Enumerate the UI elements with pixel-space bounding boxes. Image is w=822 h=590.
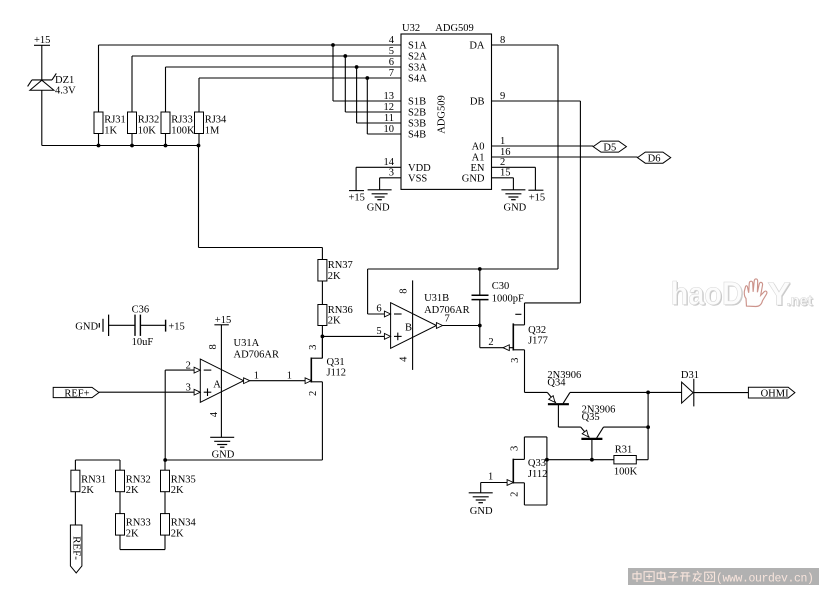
svg-text:10uF: 10uF — [132, 337, 154, 348]
svg-text:2K: 2K — [328, 316, 341, 327]
svg-text:2: 2 — [500, 157, 505, 168]
svg-text:OHMI: OHMI — [761, 388, 790, 399]
svg-text:2K: 2K — [171, 529, 184, 540]
svg-text:7: 7 — [389, 68, 394, 79]
svg-text:DB: DB — [470, 97, 485, 108]
svg-text:3: 3 — [186, 383, 191, 394]
svg-text:GND: GND — [462, 173, 485, 184]
svg-text:1M: 1M — [205, 126, 220, 137]
svg-text:1: 1 — [488, 472, 493, 483]
svg-text:A: A — [213, 380, 221, 391]
svg-text:RN31: RN31 — [81, 474, 106, 485]
svg-text:100K: 100K — [171, 126, 195, 137]
svg-text:Q33: Q33 — [528, 458, 546, 469]
svg-text:2: 2 — [308, 391, 319, 396]
svg-text:+15: +15 — [349, 193, 365, 204]
svg-text:4: 4 — [389, 35, 395, 46]
svg-text:U31B: U31B — [424, 293, 449, 304]
svg-text:DZ1: DZ1 — [55, 75, 74, 86]
svg-text:RJ32: RJ32 — [138, 115, 160, 126]
svg-text:A0: A0 — [472, 142, 485, 153]
svg-text:haoD: haoD — [671, 276, 743, 312]
svg-text:1K: 1K — [104, 126, 117, 137]
svg-text:C36: C36 — [132, 305, 150, 316]
svg-text:1000pF: 1000pF — [492, 294, 524, 305]
svg-text:RN36: RN36 — [328, 305, 353, 316]
svg-text:2: 2 — [186, 360, 191, 371]
svg-text:14: 14 — [384, 157, 395, 168]
svg-text:Q34: Q34 — [547, 378, 566, 389]
svg-text:S3A: S3A — [408, 63, 427, 74]
svg-text:4.3V: 4.3V — [55, 86, 76, 97]
svg-text:8: 8 — [208, 344, 219, 349]
svg-text:J112: J112 — [327, 368, 346, 379]
svg-text:3: 3 — [510, 358, 521, 363]
svg-text:D6: D6 — [648, 154, 661, 165]
svg-text:RN32: RN32 — [126, 474, 151, 485]
svg-text:4: 4 — [209, 411, 220, 417]
svg-text:J177: J177 — [528, 336, 548, 347]
svg-text:Q31: Q31 — [327, 357, 345, 368]
svg-text:2K: 2K — [81, 485, 94, 496]
svg-text:GND: GND — [470, 506, 493, 517]
svg-text:2K: 2K — [126, 529, 139, 540]
svg-text:15: 15 — [500, 168, 511, 179]
svg-text:GND: GND — [504, 203, 527, 214]
svg-text:S4B: S4B — [408, 130, 426, 141]
svg-text:EN: EN — [471, 163, 485, 174]
svg-text:RJ31: RJ31 — [104, 115, 126, 126]
svg-text:S2A: S2A — [408, 52, 427, 63]
svg-text:RN33: RN33 — [126, 518, 151, 529]
svg-text:VSS: VSS — [408, 173, 427, 184]
svg-text:ADG509: ADG509 — [435, 23, 474, 34]
svg-text:U31A: U31A — [234, 338, 260, 349]
svg-text:8: 8 — [500, 35, 505, 46]
svg-text:9: 9 — [500, 91, 505, 102]
svg-text:6: 6 — [376, 304, 381, 315]
svg-text:RN34: RN34 — [171, 518, 197, 529]
svg-text:J112: J112 — [528, 469, 547, 480]
svg-text:13: 13 — [384, 91, 395, 102]
svg-text:2: 2 — [488, 337, 493, 348]
svg-text:REF-: REF- — [70, 536, 82, 560]
svg-text:VDD: VDD — [408, 163, 431, 174]
svg-text:RN35: RN35 — [171, 474, 196, 485]
svg-text:1: 1 — [254, 371, 259, 382]
svg-text:RJ33: RJ33 — [171, 115, 193, 126]
svg-text:+15: +15 — [215, 315, 231, 326]
svg-text:GND: GND — [367, 203, 390, 214]
svg-text:ADG509: ADG509 — [437, 95, 448, 134]
svg-text:2K: 2K — [328, 271, 341, 282]
svg-text:3: 3 — [510, 446, 521, 451]
svg-text:C30: C30 — [492, 281, 510, 292]
svg-text:3: 3 — [389, 168, 394, 179]
svg-text:3: 3 — [308, 345, 319, 350]
svg-text:(www.ourdev.cn): (www.ourdev.cn) — [716, 573, 814, 586]
svg-text:.net: .net — [787, 293, 813, 310]
svg-text:RN37: RN37 — [328, 260, 353, 271]
svg-text:4: 4 — [399, 356, 410, 362]
svg-text:S4A: S4A — [408, 74, 427, 85]
svg-text:DA: DA — [469, 41, 485, 52]
svg-text:12: 12 — [384, 102, 395, 113]
svg-text:5: 5 — [389, 46, 394, 57]
svg-text:B: B — [405, 323, 412, 334]
svg-text:8: 8 — [399, 288, 410, 293]
svg-text:Q32: Q32 — [528, 325, 546, 336]
svg-text:1: 1 — [287, 371, 292, 382]
svg-text:10K: 10K — [138, 126, 157, 137]
svg-text:GND: GND — [75, 322, 98, 333]
svg-text:11: 11 — [384, 113, 394, 124]
svg-text:7: 7 — [445, 314, 450, 325]
svg-text:5: 5 — [376, 326, 381, 337]
svg-text:+15: +15 — [34, 35, 50, 46]
svg-text:GND: GND — [212, 450, 235, 461]
svg-text:1: 1 — [500, 136, 505, 147]
svg-text:U32: U32 — [402, 23, 420, 34]
svg-text:10: 10 — [384, 124, 395, 135]
svg-text:R31: R31 — [615, 445, 633, 456]
svg-text:S2B: S2B — [408, 108, 426, 119]
svg-text:D5: D5 — [603, 143, 616, 154]
svg-text:REF+: REF+ — [64, 388, 89, 399]
svg-text:D31: D31 — [681, 370, 699, 381]
svg-text:S3B: S3B — [408, 119, 426, 130]
svg-text:2K: 2K — [171, 485, 184, 496]
svg-text:6: 6 — [389, 57, 394, 68]
svg-text:2: 2 — [510, 492, 521, 497]
svg-text:2K: 2K — [126, 485, 139, 496]
svg-text:S1B: S1B — [408, 97, 426, 108]
svg-text:S1A: S1A — [408, 41, 427, 52]
svg-text:+15: +15 — [168, 321, 184, 332]
svg-text:RJ34: RJ34 — [205, 115, 227, 126]
svg-text:+15: +15 — [529, 193, 545, 204]
svg-text:100K: 100K — [614, 467, 638, 478]
svg-text:Q35: Q35 — [582, 412, 600, 423]
svg-text:AD706AR: AD706AR — [234, 350, 280, 361]
